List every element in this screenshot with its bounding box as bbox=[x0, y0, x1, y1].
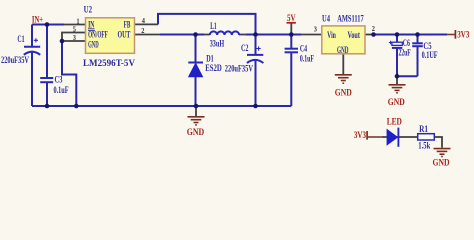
wire U2 onoff-gnd to rail bbox=[62, 41, 76, 106]
svg-text:LED: LED bbox=[387, 117, 403, 127]
wire L1 to C2 bbox=[245, 34, 255, 36]
wire C1 top vertical bbox=[31, 25, 33, 48]
svg-text:5V: 5V bbox=[287, 13, 296, 23]
svg-text:GND: GND bbox=[433, 158, 450, 168]
capacitor C6 bbox=[389, 41, 392, 44]
wire LED chain bbox=[382, 136, 418, 138]
U4 gnd pin bbox=[342, 54, 344, 74]
svg-text:2: 2 bbox=[141, 27, 145, 35]
wire D1 top bbox=[195, 35, 197, 63]
capacitor C4 bbox=[285, 48, 298, 50]
wire C6 top bbox=[396, 35, 398, 43]
wire FB loop bbox=[158, 14, 256, 35]
svg-text:0.1uF: 0.1uF bbox=[300, 53, 314, 63]
svg-text:C4: C4 bbox=[300, 43, 308, 53]
junction C3 top on IN+ net bbox=[45, 22, 50, 27]
svg-text:1: 1 bbox=[77, 18, 80, 26]
wire C4 top bbox=[290, 35, 292, 49]
U4 pin 2 bbox=[365, 34, 374, 36]
U4 body bbox=[322, 26, 365, 54]
svg-text:2: 2 bbox=[372, 25, 376, 33]
resistor R1 bbox=[418, 134, 435, 140]
junction U4 pin2 bbox=[371, 32, 376, 37]
U2 pin 5 bbox=[62, 33, 86, 42]
wire C2 top bbox=[255, 35, 257, 55]
U2 pin 3 bbox=[62, 40, 86, 42]
svg-text:U4: U4 bbox=[322, 14, 330, 24]
U4 pin 3 bbox=[302, 34, 322, 36]
svg-text:U2: U2 bbox=[84, 4, 93, 14]
L1 pin right bbox=[239, 34, 245, 36]
wire U4 out to 3V3 bbox=[374, 34, 448, 36]
svg-text:3V3: 3V3 bbox=[457, 30, 469, 40]
svg-text:IN+: IN+ bbox=[32, 14, 43, 24]
junction C5 top bbox=[415, 32, 420, 37]
gnd symbol R1 bbox=[434, 149, 451, 157]
svg-text:Vout: Vout bbox=[348, 30, 360, 40]
svg-text:C2: C2 bbox=[241, 43, 249, 53]
5V stem bbox=[290, 23, 292, 34]
gnd symbol U4 bbox=[335, 75, 352, 83]
wire C2 to 5V node bbox=[256, 34, 292, 36]
wire C6-C5 gnd link bbox=[397, 75, 418, 77]
junction D1 on OUT rail bbox=[193, 32, 198, 37]
wire C2 bottom bbox=[255, 61, 257, 107]
gnd symbol mid rail bbox=[188, 117, 205, 125]
svg-text:3: 3 bbox=[73, 34, 77, 42]
svg-text:C1: C1 bbox=[17, 34, 25, 44]
svg-text:22uF: 22uF bbox=[399, 47, 412, 57]
svg-text:1.5k: 1.5k bbox=[418, 140, 430, 150]
svg-text:3: 3 bbox=[314, 25, 318, 33]
U2 body bbox=[86, 18, 135, 54]
wire C3 top vertical bbox=[46, 25, 48, 79]
wire OUT rail bbox=[160, 34, 204, 36]
capacitor C5 bbox=[412, 42, 423, 44]
svg-text:FB: FB bbox=[124, 20, 131, 30]
svg-text:GND: GND bbox=[88, 40, 99, 50]
wire D1 bottom bbox=[195, 77, 197, 106]
U2 pin 4 bbox=[135, 23, 159, 25]
gnd stem C6 bbox=[396, 76, 398, 84]
power port 5V bbox=[287, 22, 296, 24]
wire C1 bottom vertical bbox=[31, 52, 33, 106]
svg-text:GND: GND bbox=[388, 97, 405, 107]
svg-text:GND: GND bbox=[335, 88, 352, 98]
L1 pin left bbox=[204, 34, 210, 36]
wire ground rail bottom bbox=[32, 105, 291, 107]
junction C6 bottom gnd bbox=[395, 74, 400, 79]
svg-text:0.1UF: 0.1UF bbox=[422, 50, 438, 60]
svg-text:LM2596T-5V: LM2596T-5V bbox=[83, 58, 136, 68]
U2 pin 2 bbox=[135, 34, 161, 36]
wire IN+ horizontal bbox=[32, 24, 64, 26]
junction C6 top bbox=[395, 32, 400, 37]
svg-text:GND: GND bbox=[187, 127, 205, 137]
capacitor C1 bbox=[24, 46, 40, 48]
svg-text:220uF35V: 220uF35V bbox=[1, 55, 29, 65]
junction C2/FB on OUT rail bbox=[253, 32, 258, 37]
junction 5V/C4 on OUT rail bbox=[289, 32, 294, 37]
capacitor C2 bbox=[247, 54, 263, 56]
svg-text:C3: C3 bbox=[55, 75, 63, 85]
gnd stem mid bbox=[195, 106, 197, 116]
wire C4 bottom bbox=[290, 52, 292, 106]
wire 5V node to U4 pin3 bbox=[291, 34, 302, 36]
wire R1 to gnd bbox=[434, 137, 442, 148]
svg-text:OUT: OUT bbox=[118, 29, 131, 39]
svg-text:4: 4 bbox=[142, 17, 146, 25]
svg-text:GND: GND bbox=[337, 45, 349, 55]
junction gnd symbol on gnd rail bbox=[194, 104, 199, 109]
svg-text:0.1uF: 0.1uF bbox=[54, 85, 69, 95]
svg-text:ES2D: ES2D bbox=[205, 63, 222, 73]
svg-text:5: 5 bbox=[73, 26, 77, 34]
wire C6 bottom bbox=[396, 48, 398, 76]
svg-text:IN: IN bbox=[88, 20, 95, 30]
wire C3 bottom vertical bbox=[46, 82, 48, 106]
svg-text:Vin: Vin bbox=[327, 30, 336, 40]
power port 3V3 right bbox=[447, 34, 455, 36]
wire C5 top bbox=[417, 35, 419, 44]
inductor L1 bbox=[210, 31, 239, 35]
junction U2 gnd on gnd rail bbox=[74, 104, 79, 109]
capacitor C3 bbox=[40, 77, 53, 79]
svg-text:3V3: 3V3 bbox=[354, 130, 366, 140]
LED bbox=[387, 130, 397, 145]
U2 pin 1 bbox=[64, 24, 86, 26]
junction C3 bottom on gnd rail bbox=[45, 104, 50, 109]
svg-text:AMS1117: AMS1117 bbox=[337, 14, 364, 24]
svg-text:220uF35V: 220uF35V bbox=[225, 64, 254, 74]
svg-text:D1: D1 bbox=[206, 53, 214, 63]
junction C2 bottom on gnd rail bbox=[253, 104, 258, 109]
diode D1 bbox=[188, 62, 203, 64]
svg-text:R1: R1 bbox=[419, 124, 428, 134]
svg-text:33uH: 33uH bbox=[210, 39, 225, 49]
junction U2 pin5-pin3 bbox=[60, 39, 65, 44]
wire C5 bottom bbox=[417, 46, 419, 76]
gnd symbol C6C5 bbox=[389, 85, 406, 93]
svg-text:L1: L1 bbox=[210, 21, 217, 31]
